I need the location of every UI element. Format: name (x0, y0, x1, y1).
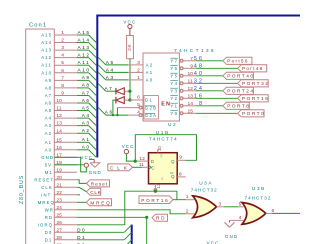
svg-text:MREQ: MREQ (38, 200, 55, 205)
wire 5V pin 18 (54, 164, 84, 166)
wire MREQ pin 23 (77, 201, 86, 203)
svg-text:G1: G1 (145, 98, 153, 103)
power VCC symbol at Con1 5V pin (80, 155, 93, 167)
U3B reference (252, 186, 266, 192)
svg-text:A2: A2 (45, 131, 52, 136)
svg-text:12: 12 (139, 156, 145, 162)
connector Con1 pin 21 (CLK) (41, 182, 77, 190)
connector Con1 pin 27 (D0) (45, 227, 77, 235)
svg-text:Y3: Y3 (170, 88, 178, 93)
svg-text:Reset: Reset (91, 181, 108, 186)
global label PORT0 (238, 110, 266, 117)
connector Con1 pin 23 (MREQ) (38, 197, 77, 205)
svg-text:24: 24 (56, 205, 62, 211)
wire net D0 (77, 231, 124, 233)
svg-text:15: 15 (188, 108, 194, 114)
svg-text:D0: D0 (77, 227, 86, 232)
net label A7 (82, 90, 91, 95)
wire pull-up to diode AND node (129, 59, 131, 100)
U1B preset name PR (160, 154, 163, 158)
connector Con1 pin 29 (D2) (45, 242, 77, 244)
wire net A11 from Con1 pin 5 (77, 64, 89, 66)
net label A7 (105, 86, 114, 91)
U2 input name A2 (146, 63, 154, 68)
U1B pin 12 D (137, 156, 155, 164)
wire stub to GND symbol (89, 158, 94, 160)
svg-text:4: 4 (137, 109, 140, 115)
connector Con1 pin 1 (A15) (41, 30, 77, 38)
svg-text:A11: A11 (41, 63, 52, 68)
U3A pin 2 (186, 208, 195, 214)
svg-text:PORT24: PORT24 (227, 89, 254, 94)
svg-text:2K: 2K (127, 44, 132, 51)
wire net A15 from Con1 pin 1 (77, 34, 89, 36)
bus entry A10 (89, 73, 97, 81)
ground symbol at Con1 (89, 159, 102, 175)
bus data bus vertical segment (130, 225, 134, 244)
svg-text:A11: A11 (78, 60, 91, 65)
global label CLK at U1B (108, 164, 142, 171)
svg-text:A15: A15 (41, 33, 52, 38)
wire net A9 from Con1 pin 7 (77, 79, 89, 81)
svg-text:RD: RD (156, 216, 166, 221)
svg-text:74HCT32: 74HCT32 (191, 187, 218, 192)
svg-text:VCC: VCC (80, 155, 93, 160)
svg-text:GND: GND (225, 234, 238, 239)
wire Q feedback loop (135, 135, 196, 161)
connector Con1 pin 14 (A2) (45, 128, 77, 136)
connector Con1 pin 26 (IORQ) (38, 220, 77, 228)
U3A value 74HCT32 (191, 187, 218, 192)
net number 8 (199, 101, 204, 107)
global label Port48 (238, 65, 267, 72)
global label PORT16 (238, 95, 270, 102)
connector Con1 pin 17 (GND) (41, 152, 77, 160)
svg-text:WR: WR (45, 207, 54, 212)
svg-text:Y7: Y7 (170, 58, 178, 63)
svg-text:74HCT138: 74HCT138 (174, 48, 216, 54)
svg-text:20: 20 (56, 175, 62, 181)
svg-text:U3A: U3A (199, 180, 213, 186)
svg-text:PORT40: PORT40 (227, 74, 254, 79)
svg-text:5: 5 (61, 60, 64, 66)
svg-text:A5: A5 (82, 105, 91, 110)
svg-text:A8: A8 (45, 85, 52, 90)
svg-text:22: 22 (56, 190, 62, 196)
svg-text:7: 7 (61, 75, 64, 81)
connector Con1 pin 18 (5V) (45, 160, 77, 168)
connector Con1 pin 13 (A3) (45, 121, 77, 128)
svg-text:RD: RD (45, 215, 53, 220)
svg-text:A1: A1 (45, 140, 52, 145)
connector Con1 pin 5 (A11) (41, 60, 77, 68)
svg-text:A13: A13 (41, 48, 52, 53)
svg-text:PORT32: PORT32 (242, 81, 269, 86)
svg-text:15: 15 (56, 137, 62, 143)
bus entry A5 to U2 (98, 57, 106, 65)
wire RESET pin 20 (77, 180, 87, 184)
U1B pin 13 clear (154, 183, 161, 191)
U2 pin 2 (128, 67, 143, 73)
wire Y0 to PORT0 (196, 112, 238, 114)
svg-text:Y6: Y6 (170, 66, 178, 71)
svg-text:Y4: Y4 (170, 81, 178, 86)
svg-text:10: 10 (56, 98, 62, 104)
or-gate U3A 74HCT32 (193, 196, 217, 218)
wire Y7 to Port56 (196, 60, 223, 62)
wire net A1 from Con1 pin 15 (77, 141, 89, 143)
bus name Z80_BUS (19, 175, 25, 204)
U2 output Y6 pin 9 (170, 63, 196, 71)
bus entry A3 (89, 126, 97, 133)
junction U1B D node (134, 160, 137, 163)
wire Y5 to PORT40 (196, 75, 223, 77)
svg-text:74HCT32: 74HCT32 (245, 196, 272, 201)
svg-text:Q: Q (171, 159, 175, 164)
wire net A3 from Con1 pin 13 (77, 125, 89, 127)
svg-text:EN: EN (161, 102, 171, 108)
connector Con1 pin 8 (A8) (45, 83, 77, 91)
svg-text:Q: Q (171, 174, 175, 179)
svg-text:M1: M1 (45, 170, 53, 175)
wire net A5 to U2 (106, 64, 128, 66)
net label A15 (78, 30, 91, 35)
bus entry A11 (89, 65, 97, 73)
resistor R 2K pull-up (127, 36, 134, 59)
svg-text:2: 2 (61, 38, 64, 44)
svg-text:10: 10 (157, 146, 162, 151)
svg-text:U3B: U3B (252, 186, 266, 192)
svg-text:INT: INT (41, 192, 51, 197)
connector Con1 pin 25 (RD) (45, 212, 77, 220)
global label PORT24 (223, 87, 255, 94)
U2 pin 4 G2A (128, 109, 157, 118)
U2 pin 5 G2B (117, 102, 157, 110)
svg-text:A9: A9 (82, 75, 91, 80)
svg-text:7: 7 (190, 56, 193, 62)
svg-text:A4: A4 (106, 67, 115, 72)
svg-text:A6: A6 (45, 101, 52, 106)
U2 pin 6 G1 (130, 94, 153, 102)
bus entry A12 (89, 58, 97, 66)
svg-text:13: 13 (156, 183, 161, 188)
svg-text:A2: A2 (146, 63, 154, 68)
svg-text:PORT16: PORT16 (141, 198, 169, 203)
wire net A13 from Con1 pin 3 (77, 49, 89, 51)
wire net A3 to U2 (106, 79, 128, 81)
U2 output Y2 pin 13 (170, 93, 196, 101)
bus entry A6 (98, 108, 106, 116)
connector Con1 pin 19 (M1) (45, 167, 77, 175)
svg-text:2: 2 (186, 208, 189, 214)
svg-text:A12: A12 (78, 52, 91, 57)
U3A reference (199, 180, 213, 186)
svg-text:D1: D1 (45, 237, 53, 242)
svg-text:8: 8 (179, 172, 182, 178)
connector Con1 pin 12 (A4) (45, 113, 77, 121)
svg-text:6: 6 (61, 68, 64, 74)
wire net D1 (77, 239, 124, 241)
U2 output Y1 pin 14 (170, 101, 196, 109)
svg-text:A4: A4 (82, 113, 91, 118)
bus entry D2 partial (124, 240, 132, 244)
U2 pin 1 (128, 75, 143, 81)
svg-text:A9: A9 (45, 78, 52, 83)
svg-text:A6: A6 (82, 98, 91, 103)
svg-text:GND: GND (41, 155, 54, 160)
connector Con1 pin 24 (WR) (45, 205, 77, 213)
wire net A2 from Con1 pin 14 (77, 132, 89, 134)
svg-text:Y0: Y0 (170, 111, 178, 116)
net label A2 (82, 128, 91, 133)
net label A1 (82, 137, 91, 142)
svg-text:Con1: Con1 (29, 23, 47, 29)
bus entry A9 (89, 80, 97, 88)
U1B value 74HCT74 (149, 137, 178, 143)
svg-text:13: 13 (188, 93, 194, 99)
U2 enable label EN (161, 102, 171, 108)
svg-text:1: 1 (61, 30, 64, 36)
global label PORT8 (223, 102, 251, 109)
svg-text:A13: A13 (78, 45, 91, 50)
svg-text:VCC: VCC (122, 144, 135, 149)
svg-text:1: 1 (186, 194, 189, 200)
bus entry A6 (89, 103, 97, 111)
connector Con1 pin 10 (A6) (45, 98, 77, 106)
wire net A7 to diode (106, 90, 116, 92)
svg-text:13: 13 (56, 121, 62, 127)
net label A6 (105, 109, 114, 114)
global label RD (152, 214, 168, 221)
svg-text:1: 1 (137, 75, 140, 81)
net label A8 (82, 83, 91, 88)
U3A pin 3 output wire to U3B (217, 202, 244, 208)
global label Reset (87, 180, 110, 187)
wire RD net (77, 216, 147, 218)
wire net A12 from Con1 pin 4 (77, 57, 89, 59)
svg-text:74HCT74: 74HCT74 (149, 137, 178, 143)
svg-text:VCC: VCC (123, 19, 136, 24)
junction A6 lower diode (112, 114, 114, 116)
connector Con1 reference label (29, 23, 47, 29)
U1B clear name CL (161, 176, 164, 180)
svg-text:A10: A10 (78, 68, 91, 73)
wire Y4 to PORT32 (196, 82, 238, 84)
svg-text:Port56: Port56 (227, 59, 249, 64)
power VCC symbol at resistor (123, 19, 136, 35)
junction U1B clear to IORQ wire (154, 190, 157, 193)
connector net label D2 partial (77, 242, 86, 244)
wire net A5 from Con1 pin 11 (77, 110, 89, 112)
svg-text:4: 4 (61, 53, 64, 59)
svg-text:U2: U2 (168, 122, 177, 128)
wire net A4 from Con1 pin 12 (77, 117, 89, 119)
svg-text:5: 5 (137, 102, 140, 108)
U1B pin 8 Q-bar output (170, 172, 186, 179)
svg-text:23: 23 (56, 197, 62, 203)
junction RD (145, 216, 148, 219)
net label D0 (77, 227, 86, 232)
wire net A8 from Con1 pin 8 (77, 87, 89, 89)
connector Con1 pin 28 (D1) (45, 235, 77, 243)
wire IORQ to U3A pin 1 (77, 191, 186, 225)
wire net A10 from Con1 pin 6 (77, 72, 89, 74)
net label A13 (78, 45, 91, 50)
flip-flop U1B 74HCT74 body (149, 153, 178, 184)
U2 input name A1 (146, 70, 154, 75)
svg-text:14: 14 (188, 101, 194, 107)
U3B pin 5 (239, 201, 242, 207)
svg-text:6: 6 (272, 208, 275, 214)
svg-text:D0: D0 (45, 230, 53, 235)
svg-text:5: 5 (239, 201, 242, 207)
bus entry A4 (89, 118, 97, 126)
U1B reference (156, 130, 170, 136)
connector Con1 pin 9 (A7) (45, 90, 77, 98)
svg-text:A3: A3 (82, 120, 91, 125)
global label PORT40 (223, 72, 255, 79)
wire WR to U3A pin 2 (77, 210, 186, 214)
U1B pin 10 preset (157, 146, 162, 153)
svg-text:A3: A3 (45, 123, 52, 128)
svg-text:CLK: CLK (90, 190, 101, 195)
diode D lower (116, 97, 130, 104)
connector Con1 pin 2 (A14) (41, 38, 77, 46)
connector Con1 pin 6 (A10) (41, 68, 77, 76)
svg-text:26: 26 (56, 220, 62, 226)
global label PORT16 at U3A input (139, 196, 177, 204)
svg-text:9: 9 (179, 155, 182, 161)
svg-text:VCC: VCC (207, 240, 220, 244)
wire net A7 from Con1 pin 9 (77, 94, 89, 96)
bus entry D1 (124, 232, 132, 240)
svg-text:3: 3 (218, 202, 221, 208)
svg-text:GND: GND (89, 170, 102, 175)
wire G2B to A6 net (116, 108, 118, 116)
U1B pin 11 C clock (139, 162, 156, 170)
svg-text:4: 4 (239, 215, 242, 221)
connector Con1 pin 7 (A9) (45, 75, 77, 83)
svg-text:A14: A14 (41, 40, 52, 45)
bus entry A7 (98, 84, 106, 92)
net label A14 (78, 37, 91, 42)
bus Z80 address bus horizontal segment (97, 14, 300, 18)
connector Con1 body (26, 29, 55, 244)
bus entry A5 (89, 111, 97, 119)
global label PORT32 (238, 80, 270, 87)
wire Y2 to PORT16 (196, 97, 238, 99)
power VCC partial at bottom (207, 240, 220, 244)
U2 output Y0 pin 15 (170, 108, 196, 116)
U2 input name A0 (146, 78, 154, 83)
svg-text:27: 27 (56, 227, 62, 233)
junction diode AND node upper (128, 90, 131, 93)
svg-text:A1: A1 (82, 137, 91, 142)
wire net A14 from Con1 pin 2 (77, 42, 89, 44)
net label D1 (77, 235, 86, 240)
wire CLK pin 21 (77, 187, 87, 192)
bus entry A15 (89, 35, 97, 43)
svg-text:PORT8: PORT8 (227, 104, 250, 109)
bus entry A14 (89, 43, 97, 51)
net label A4 (82, 113, 91, 118)
power VCC at U1B D input (122, 144, 136, 161)
svg-text:MREQ: MREQ (90, 200, 111, 205)
svg-text:CLK: CLK (41, 185, 53, 190)
net label A3 (106, 75, 115, 80)
svg-text:A7: A7 (82, 90, 91, 95)
svg-text:IORQ: IORQ (38, 222, 53, 227)
svg-text:PR: PR (160, 154, 163, 158)
U3B value 74HCT32 (245, 196, 272, 201)
U2 output Y3 pin 12 (170, 86, 196, 94)
svg-text:D1: D1 (77, 235, 86, 240)
bus entry A8 (89, 88, 97, 96)
svg-text:A10: A10 (41, 70, 52, 75)
svg-text:RESET: RESET (34, 177, 54, 182)
net label A3 (82, 120, 91, 125)
net number 48 (194, 64, 205, 70)
svg-text:2: 2 (137, 67, 140, 73)
connector Con1 pin 4 (A12) (41, 53, 77, 61)
svg-text:11: 11 (188, 78, 193, 84)
net label A11 (78, 60, 91, 65)
connector Con1 pin 3 (A13) (41, 45, 77, 53)
wire Y6 to Port48 (196, 67, 238, 69)
U2 enable bracket (144, 96, 158, 119)
global label MREQ (86, 199, 111, 206)
global label Port56 (223, 57, 252, 64)
svg-text:A6: A6 (105, 109, 114, 114)
wire net A6 from Con1 pin 10 (77, 102, 89, 104)
U2 reference U2 (168, 122, 177, 128)
svg-text:9: 9 (61, 90, 64, 96)
svg-text:5V: 5V (45, 162, 52, 167)
svg-text:A0: A0 (146, 78, 154, 83)
bus Z80 address bus vertical segment (95, 15, 99, 158)
svg-text:A5: A5 (45, 108, 52, 113)
svg-text:A14: A14 (78, 37, 91, 42)
connector Con1 pin 22 (INT) (41, 190, 77, 198)
svg-text:Port48: Port48 (242, 66, 264, 71)
svg-text:12: 12 (188, 86, 194, 92)
svg-text:11: 11 (56, 106, 61, 112)
svg-text:16: 16 (56, 145, 62, 151)
net label A12 (78, 52, 91, 57)
U2 pin 3 (128, 60, 143, 66)
svg-text:A15: A15 (78, 30, 91, 35)
svg-text:A12: A12 (41, 55, 52, 60)
svg-text:Y2: Y2 (170, 96, 178, 101)
bus entry A2 (89, 133, 97, 141)
wire INT pin 22 stub (77, 194, 80, 196)
svg-text:PORT16: PORT16 (242, 96, 269, 101)
bus entry A0 (89, 150, 97, 158)
net label A5 (106, 60, 115, 65)
wire net A4 to U2 (106, 71, 128, 73)
U3B pin 4 (230, 215, 245, 221)
svg-text:Y5: Y5 (170, 73, 178, 78)
connector Con1 pin 15 (A1) (45, 137, 77, 145)
or-gate U3B 74HCT32 (242, 203, 266, 225)
svg-text:25: 25 (56, 212, 62, 218)
junction A6 G2B (116, 114, 118, 116)
U2 output Y5 pin 10 (170, 71, 196, 79)
net label A4 (106, 67, 115, 72)
svg-text:8: 8 (61, 83, 64, 89)
bus entry A4 to U2 (98, 65, 106, 73)
svg-text:21: 21 (56, 182, 62, 188)
